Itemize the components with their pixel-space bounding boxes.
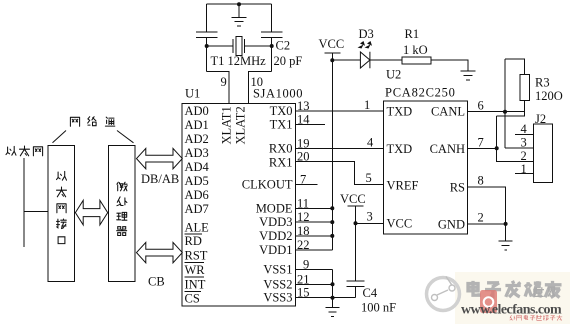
svg-text:U1: U1 [185, 87, 200, 101]
capacitor C2 right [261, 32, 283, 38]
svg-text:TXD: TXD [387, 142, 413, 156]
svg-text:8: 8 [478, 174, 484, 188]
wire VDD2 to VCC rail [296, 235, 333, 237]
connector J2 body [534, 124, 553, 182]
label 以太网 [6, 146, 43, 156]
svg-text:1 kO: 1 kO [403, 43, 428, 57]
wire VDD1 to VCC rail [296, 249, 333, 251]
node VDD2-VCC junction [330, 234, 334, 238]
svg-text:4: 4 [367, 136, 374, 150]
wire CANL to J2 pin 3 [505, 147, 534, 149]
callout leg left [53, 131, 67, 143]
node VCC-D3 junction [330, 58, 334, 62]
svg-text:DB/AB: DB/AB [141, 172, 179, 186]
watermark 世界 [534, 287, 555, 296]
watermark cream band [455, 272, 570, 324]
svg-text:GND: GND [438, 218, 465, 232]
svg-text:120O: 120O [535, 89, 563, 103]
op-amp U2 chip body [384, 101, 468, 234]
watermark red slogan [510, 315, 563, 321]
svg-text:VDD1: VDD1 [259, 243, 292, 257]
node VSS2 junction [331, 282, 335, 286]
wire top rail [207, 3, 272, 5]
wire J2 pin 1 stub [515, 173, 534, 175]
svg-text:CS: CS [185, 291, 200, 305]
node CANL junction [503, 110, 507, 114]
wire CANL (pin 6) [468, 111, 525, 113]
svg-text:U2: U2 [386, 68, 401, 82]
svg-text:1: 1 [521, 162, 527, 176]
svg-text:VSS2: VSS2 [263, 277, 292, 291]
wire pin 9 to XLAT1 [207, 72, 230, 104]
svg-text:ALE: ALE [185, 220, 210, 234]
svg-text:SJA1000: SJA1000 [253, 87, 303, 101]
node crystal right junction [270, 44, 274, 48]
svg-text:R3: R3 [535, 76, 550, 90]
svg-text:9: 9 [221, 75, 227, 89]
ground U2 [499, 241, 513, 250]
svg-text:RD: RD [185, 234, 202, 248]
svg-text:CANL: CANL [431, 105, 465, 119]
wire right branch down [271, 4, 273, 31]
wire VDD3 to VCC rail [296, 221, 333, 223]
watermark red e logo [480, 290, 497, 313]
svg-text:RX1: RX1 [269, 156, 293, 170]
svg-text:VSS1: VSS1 [263, 262, 292, 276]
svg-text:AD6: AD6 [185, 188, 209, 202]
wire RX0 to U2 TXD pin4 [296, 148, 384, 150]
wire J2 pin 4 stub [515, 133, 534, 135]
svg-text:CLKOUT: CLKOUT [242, 178, 293, 192]
svg-text:C4: C4 [363, 286, 378, 300]
svg-text:VDD2: VDD2 [259, 229, 292, 243]
capacitor C2 left [196, 32, 218, 38]
resistor R3 [520, 74, 530, 100]
svg-text:AD0: AD0 [185, 104, 209, 118]
LED arrows [358, 41, 373, 49]
capacitor C4 [347, 281, 365, 298]
svg-text:5: 5 [366, 171, 372, 185]
node CANH junction [495, 146, 499, 150]
wire CANH vertical to J2 pin 2 [497, 116, 534, 162]
svg-text:AD4: AD4 [185, 160, 210, 174]
wire CANL loop to R3 top [505, 59, 525, 148]
node RS-GND junction [504, 222, 508, 226]
node crystal left junction [205, 44, 209, 48]
wire VSS rail vertical [332, 269, 334, 307]
svg-text:3: 3 [367, 210, 373, 224]
svg-text:D3: D3 [359, 27, 374, 41]
ground (top of crystal loop) [232, 4, 247, 26]
diode D3 (LED) [360, 52, 370, 68]
node VSS3-C4 junction [331, 296, 335, 300]
wire VSS2 to ground rail [296, 283, 333, 285]
svg-text:WR: WR [185, 263, 206, 277]
wire TX0 to U2 TXD pin1 [296, 110, 384, 112]
svg-text:J2: J2 [535, 112, 546, 126]
svg-text:7: 7 [478, 135, 484, 149]
svg-text:TXD: TXD [387, 105, 413, 119]
svg-text:AD5: AD5 [185, 174, 209, 188]
wire CLKOUT stub [296, 184, 318, 186]
wire RX1 to U2 VREF pin5 [296, 161, 384, 184]
arrow interface-processor [75, 200, 107, 225]
wire VCC to U2 pin 3 [356, 222, 384, 224]
wire R3 bottom [497, 100, 525, 115]
watermark big text 电子发烧友 [468, 281, 562, 298]
microprocessor box [108, 146, 135, 282]
label 网络通 [70, 117, 114, 127]
wire right below cap [271, 38, 273, 72]
svg-text:4: 4 [521, 122, 528, 136]
svg-text:1: 1 [364, 98, 370, 112]
svg-text:TX1: TX1 [270, 118, 293, 132]
wire VCC rail vertical [331, 60, 333, 250]
svg-text:VCC: VCC [340, 192, 366, 206]
node VDD3-VCC junction [330, 220, 334, 224]
svg-text:100 nF: 100 nF [361, 301, 396, 315]
wire ethernet tap [24, 211, 48, 213]
svg-text:XLAT1: XLAT1 [220, 106, 234, 144]
svg-text:MODE: MODE [256, 201, 293, 215]
svg-text:T1 12MHz: T1 12MHz [211, 54, 267, 68]
op-amp U1 chip body [182, 103, 296, 306]
svg-text:VDD3: VDD3 [259, 215, 292, 229]
wire GND (pin 2) [468, 224, 506, 241]
svg-text:AD1: AD1 [185, 118, 209, 132]
svg-text:INT: INT [185, 277, 206, 291]
resistor R1 [402, 57, 431, 64]
label 以太网接口 (vertical) [57, 171, 67, 243]
svg-text:6: 6 [478, 99, 484, 113]
ground R1 [461, 71, 476, 80]
svg-text:VREF: VREF [387, 179, 419, 193]
wire R1 to ground [431, 60, 468, 71]
svg-text:VSS3: VSS3 [263, 291, 292, 305]
svg-text:2: 2 [521, 149, 527, 163]
svg-text:C2: C2 [276, 39, 291, 53]
svg-text:CB: CB [148, 275, 165, 289]
wire VSS1 to ground rail [296, 268, 333, 270]
arrow DB/AB [137, 148, 183, 168]
svg-text:XLAT2: XLAT2 [233, 106, 247, 144]
svg-text:RS: RS [450, 181, 465, 195]
callout leg right [117, 131, 134, 143]
svg-text:2: 2 [478, 211, 484, 225]
svg-text:CANH: CANH [430, 142, 465, 156]
svg-text:RST: RST [185, 248, 208, 262]
wire VSS3 / C4 bottom line [296, 297, 356, 299]
svg-text:3: 3 [521, 136, 527, 150]
svg-text:20 pF: 20 pF [274, 54, 303, 68]
wire MODE to VCC rail [296, 207, 333, 209]
svg-text:PCA82C250: PCA82C250 [385, 86, 456, 100]
wire TX1 stub [296, 124, 326, 126]
svg-text:AD3: AD3 [185, 146, 209, 160]
node top-center junction [237, 2, 241, 6]
svg-text:AD7: AD7 [185, 202, 209, 216]
wire left below cap [206, 38, 208, 72]
wire left branch down [206, 4, 208, 31]
arrow CB [137, 242, 183, 262]
svg-text:RX0: RX0 [269, 142, 293, 156]
node MODE-VCC junction [330, 206, 334, 210]
svg-text:AD2: AD2 [185, 132, 209, 146]
wire RS (pin 8) [468, 187, 506, 224]
wire VCC to D3 [332, 59, 360, 61]
wire CANH (pin 7) [468, 147, 497, 149]
svg-text:VCC: VCC [319, 37, 345, 51]
node VCC-pin3 junction [354, 221, 358, 225]
svg-text:TX0: TX0 [270, 104, 293, 118]
wire pin 10 to XLAT2 [248, 72, 271, 104]
svg-text:R1: R1 [405, 27, 420, 41]
svg-text:VCC: VCC [387, 217, 413, 231]
crystal T1 [207, 39, 272, 53]
ethernet interface box [48, 146, 74, 282]
watermark logo circle [427, 278, 460, 311]
label 微处理器 (vertical) [117, 182, 127, 235]
wire ethernet bus [23, 158, 25, 247]
ground VSS [326, 308, 340, 317]
